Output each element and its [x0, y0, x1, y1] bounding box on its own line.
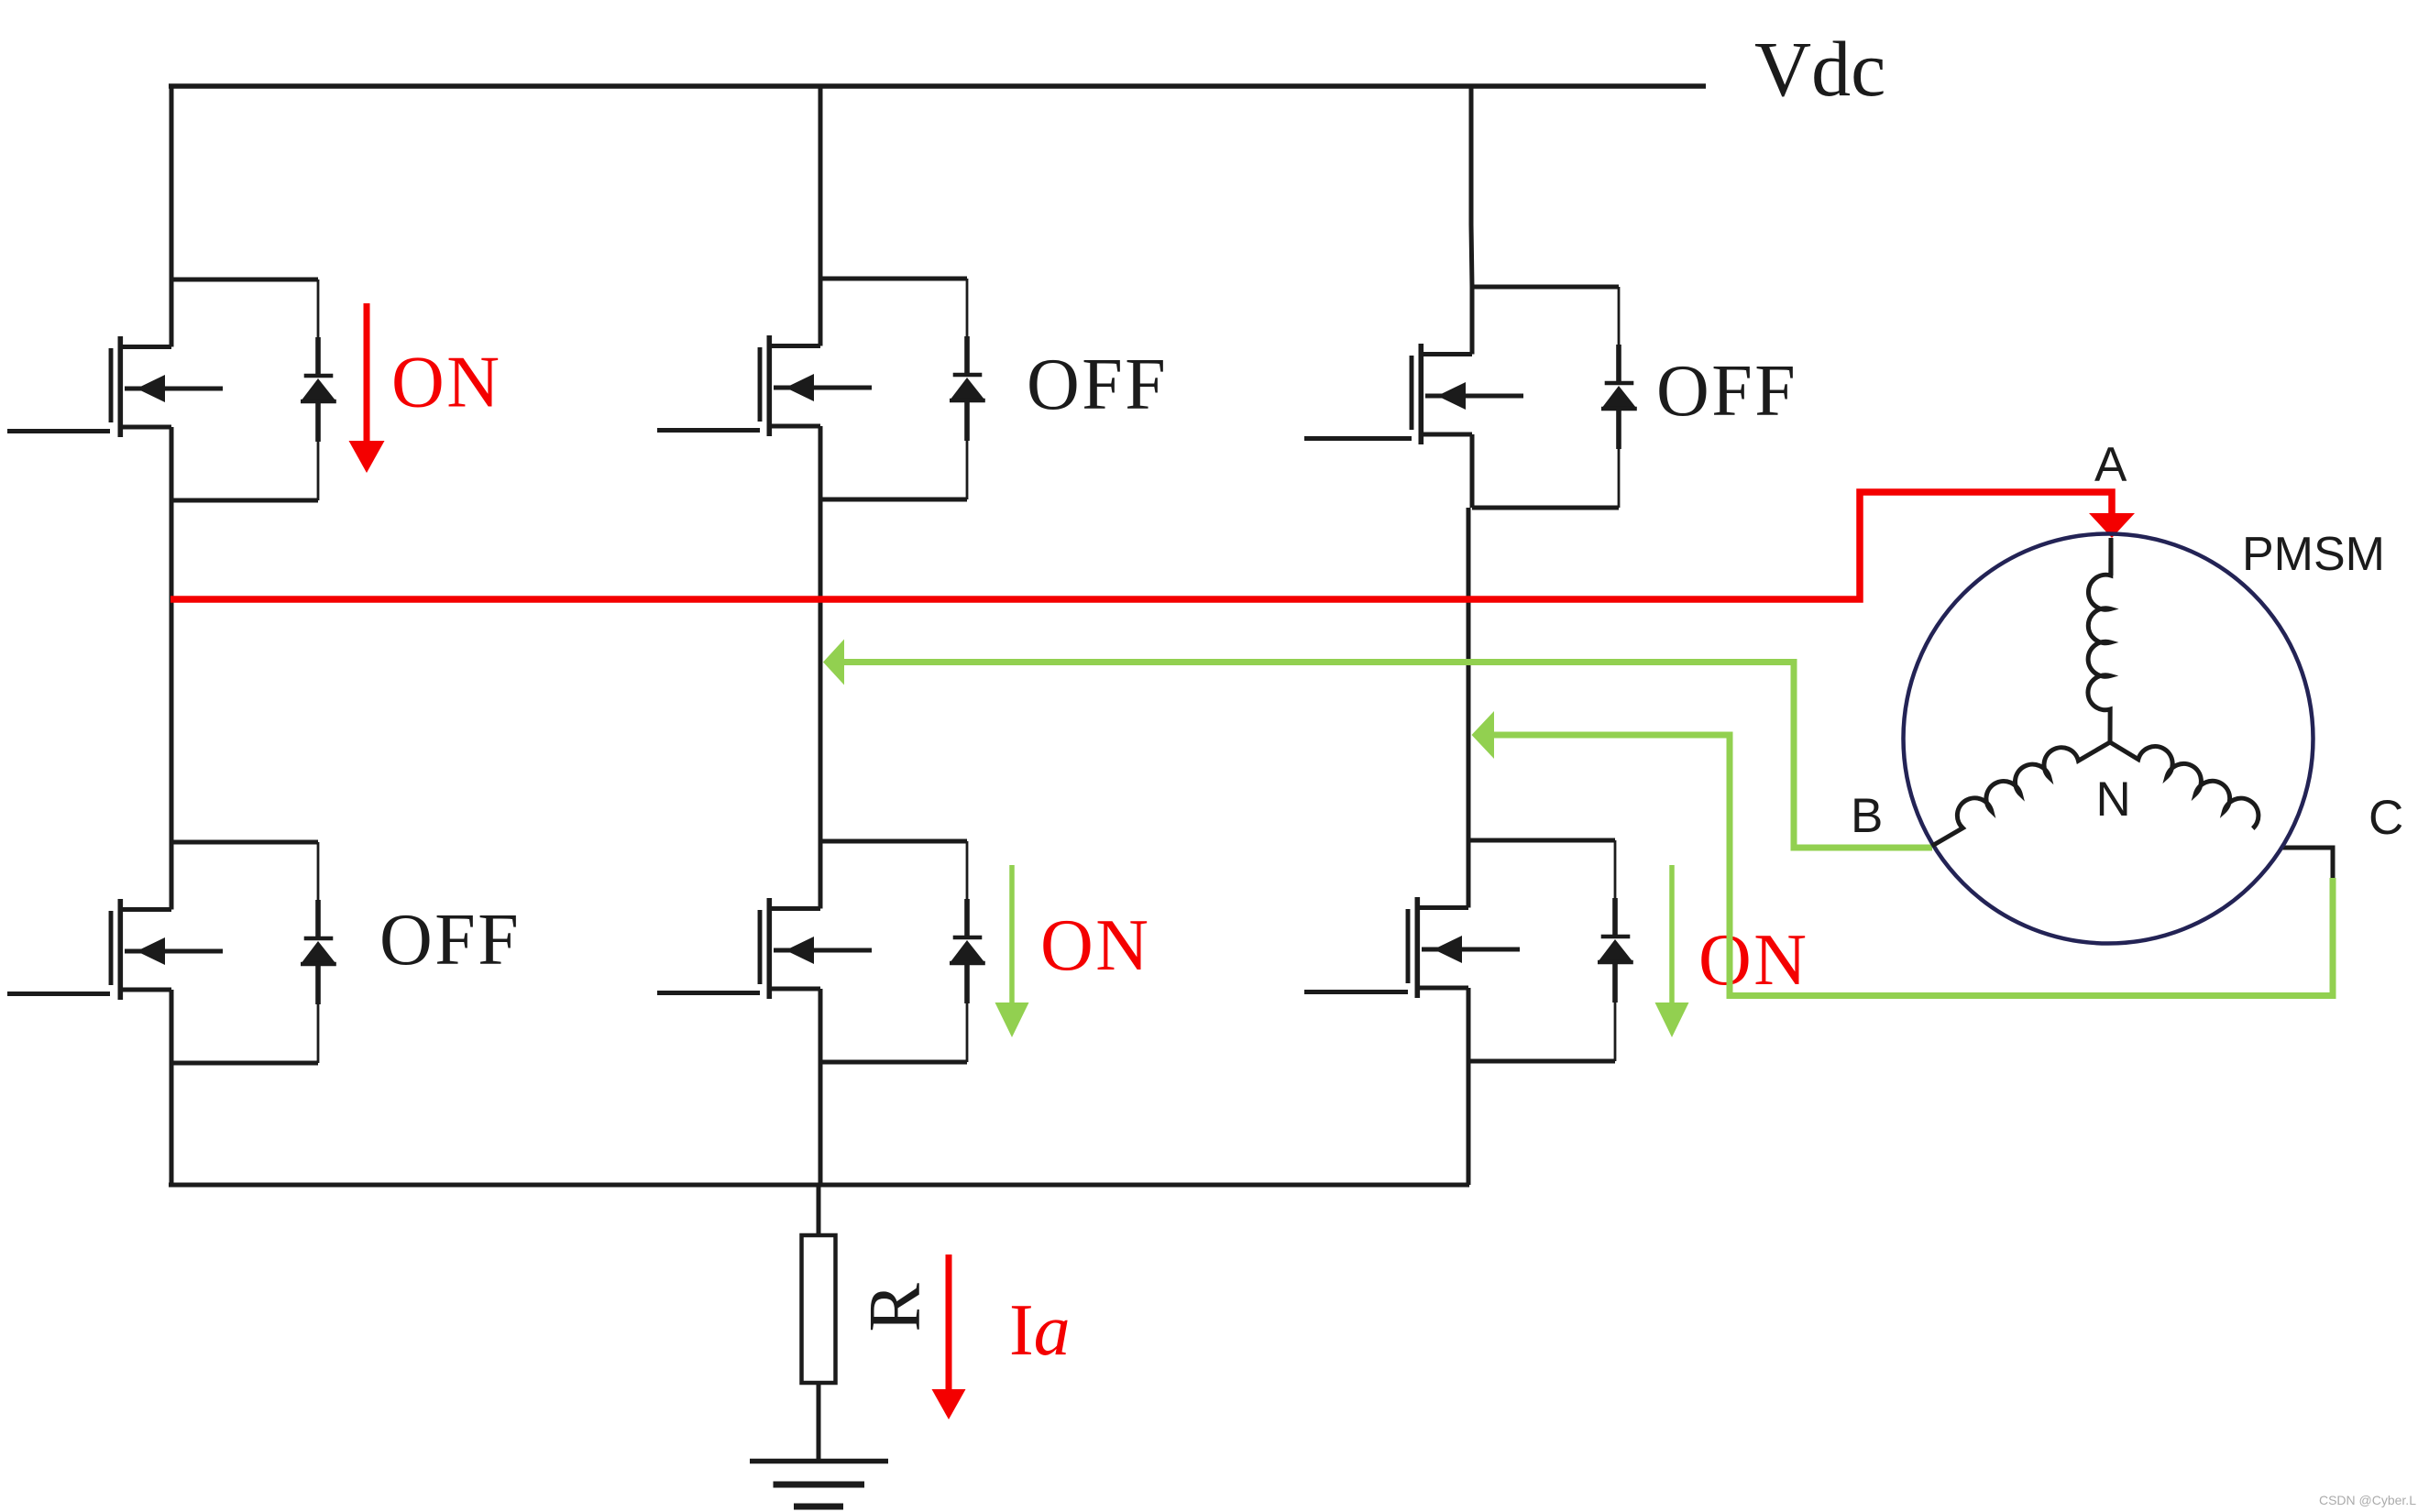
svg-text:Ia: Ia [1009, 1290, 1071, 1371]
transistor Q2 (phase B high side, OFF) [760, 279, 985, 499]
svg-text:N: N [2096, 772, 2131, 827]
wire phase A current path (red, leg A node to motor terminal A) [170, 492, 2112, 599]
wire Vdc bus [169, 83, 1706, 89]
wire leg A midpoint (Q1 source to Q4 drain, phase A node) [170, 500, 174, 842]
resistor R (shunt) [802, 1235, 836, 1383]
svg-text:OFF: OFF [1027, 345, 1168, 425]
svg-text:A: A [2094, 438, 2127, 492]
wire gate lead Q6 [1304, 990, 1408, 994]
wire leg A source (Q4 to bottom rail) [170, 1063, 174, 1185]
wire bottom rail [169, 1183, 1469, 1188]
wire leg C midpoint (Q3 source to Q6 drain, phase C node) [1467, 508, 1471, 840]
wire gate lead Q5 [657, 991, 760, 995]
current arrow at Q5 (ON, green) [1009, 865, 1015, 1003]
motor PMSM stator circle [1904, 534, 2314, 944]
wire gate lead Q1 [7, 429, 110, 433]
svg-text:B: B [1851, 789, 1883, 843]
current arrow at Q1 (ON, red) [364, 303, 370, 441]
wire phase B return path (green, motor terminal B to leg B node) [844, 663, 1932, 849]
transistor Q1 (phase A high side, ON) [111, 279, 336, 500]
svg-text:OFF: OFF [379, 900, 521, 981]
wire leg A drain (bus to Q1) [170, 84, 174, 280]
wire gate lead Q4 [7, 992, 110, 996]
transistor Q6 (phase C low side, ON) [1408, 840, 1633, 1061]
arrowhead into leg B node [823, 640, 844, 685]
winding phase A (terminal A to neutral N) [2088, 538, 2111, 742]
winding phase C (neutral N to terminal C) [2110, 742, 2259, 828]
wire leg B drain (bus to Q2) [819, 86, 823, 279]
wire motor terminal C stub [2281, 848, 2333, 879]
svg-text:PMSM: PMSM [2242, 528, 2385, 581]
wire resistor R to ground [817, 1383, 821, 1461]
current arrow at Q6 (ON, green) [1669, 865, 1675, 1003]
wire leg B source (Q5 to bottom rail) [819, 1062, 823, 1185]
wire leg C drain (bus to Q3) [1471, 86, 1472, 287]
svg-text:OFF: OFF [1656, 351, 1797, 432]
wire leg B midpoint (Q2 source to Q5 drain, phase B node) [819, 499, 823, 841]
wire gate lead Q2 [657, 428, 760, 433]
wire gate lead Q3 [1304, 436, 1412, 441]
svg-text:C: C [2369, 791, 2403, 845]
transistor Q4 (phase A low side, OFF) [111, 842, 336, 1063]
winding phase B (neutral N to terminal B) [1932, 742, 2110, 846]
wire rail to resistor R [817, 1185, 821, 1235]
svg-text:ON: ON [1698, 920, 1809, 1001]
transistor Q3 (phase C high side, OFF) [1412, 287, 1637, 508]
arrowhead into leg C node [1472, 711, 1495, 759]
wire phase C return path (green, motor terminal C to leg C node) [1494, 735, 2333, 996]
ground [750, 1462, 888, 1507]
arrowhead into motor terminal A [2089, 513, 2135, 538]
svg-text:CSDN @Cyber.L: CSDN @Cyber.L [2319, 1493, 2416, 1507]
svg-text:Vdc: Vdc [1754, 25, 1885, 113]
svg-text:ON: ON [391, 343, 502, 423]
svg-text:R: R [855, 1283, 936, 1332]
transistor Q5 (phase B low side, ON) [760, 841, 985, 1062]
wire leg C source (Q6 to bottom rail) [1467, 1061, 1471, 1185]
svg-text:ON: ON [1040, 905, 1151, 986]
current arrow Ia through resistor R (red) [946, 1255, 952, 1389]
